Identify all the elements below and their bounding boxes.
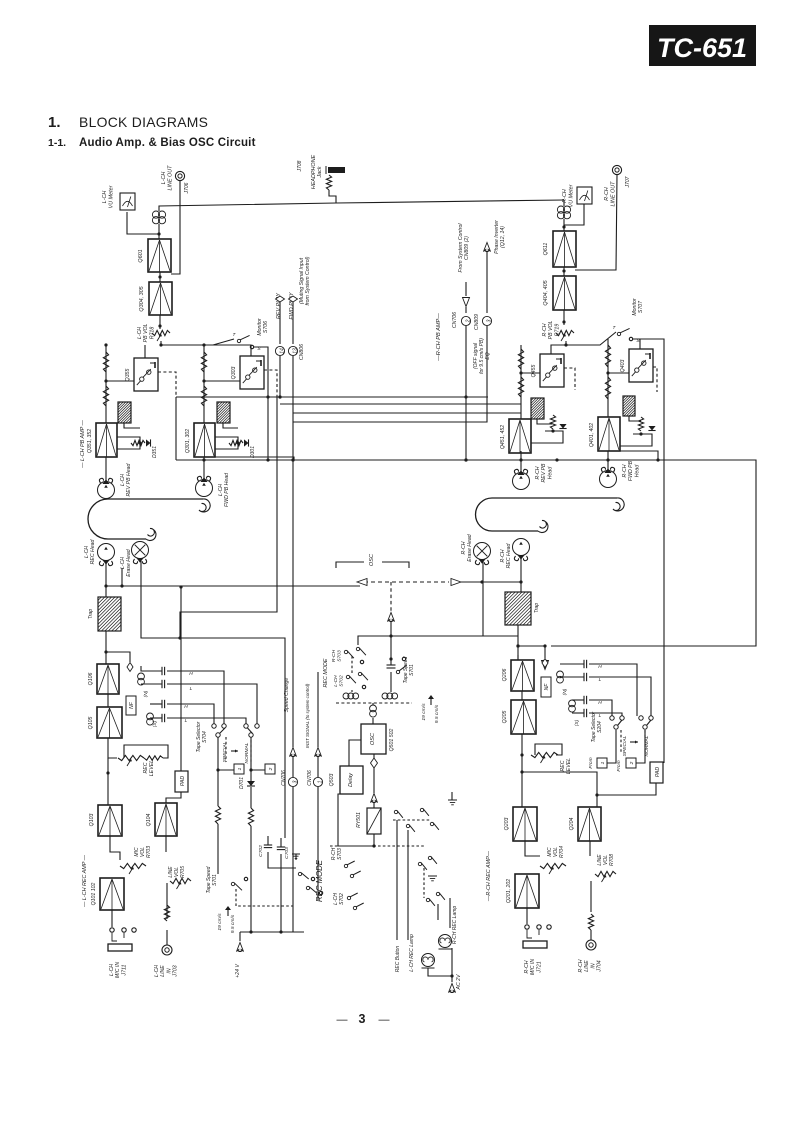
- switch chain mid: [418, 856, 445, 906]
- VU meter M-L: [120, 193, 135, 210]
- svg-text:RY501: RY501: [356, 812, 362, 828]
- From 2 box: [616, 758, 636, 772]
- wire osc vert lower: [389, 622, 392, 665]
- svg-text:Q106: Q106: [88, 673, 94, 686]
- resistor R-M1: [201, 352, 206, 372]
- wire S706 to right: [254, 347, 270, 462]
- label Tape Speed S701 upper: [206, 866, 218, 893]
- wire NF R1: [537, 419, 552, 424]
- svg-text:D301: D301: [250, 446, 256, 458]
- svg-text:Speed Change: Speed Change: [284, 678, 290, 713]
- svg-text:14: 14: [279, 348, 285, 354]
- connector circle 13: [288, 346, 298, 355]
- svg-text:L-CH: L-CH: [120, 557, 126, 569]
- L-CH REC head: [98, 544, 115, 566]
- wire REV line lower: [278, 356, 281, 399]
- wire 24v drop: [239, 932, 241, 941]
- transformer osc top: [370, 705, 377, 717]
- wire Q351 to REV head: [105, 457, 107, 481]
- svg-text:R-CH: R-CH: [535, 466, 541, 479]
- gnd mid: [428, 876, 437, 881]
- tape speed switch S701 L: [231, 877, 247, 890]
- line in jack R: [586, 940, 596, 950]
- svg-text:Q205: Q205: [502, 711, 508, 724]
- wire J706 down to Q601 out: [171, 181, 180, 274]
- caps H/L group2: [162, 700, 188, 724]
- svg-text:— L-CH PB AMP —: — L-CH PB AMP —: [80, 419, 86, 468]
- diamond FWD PLAY: [289, 296, 298, 302]
- coils lower1: [343, 690, 359, 699]
- label HEADPHONE Jack: [311, 155, 323, 190]
- label Trap R: [534, 603, 540, 613]
- label REC LEVEL R: [560, 758, 572, 774]
- svg-text:(N): (N): [143, 690, 149, 697]
- wire D351 net: [117, 437, 142, 449]
- svg-text:MIC IN: MIC IN: [115, 962, 121, 978]
- label L-CH REV PB Head: [120, 462, 132, 496]
- wire caps to sel R3: [589, 700, 612, 716]
- rec mode switch group L: [298, 872, 322, 894]
- resistor sel L2: [248, 808, 253, 826]
- svg-text:REC MODE: REC MODE: [323, 658, 329, 687]
- rec mode switches upper: [344, 647, 368, 688]
- svg-text:J706: J706: [184, 182, 190, 194]
- dashed osc vertical: [390, 582, 392, 611]
- wire branch 122: [121, 568, 123, 586]
- svg-text:REC Head: REC Head: [90, 538, 96, 564]
- svg-text:Q206: Q206: [502, 669, 508, 682]
- NF label box L: [126, 696, 136, 715]
- svg-text:9.5 cm/s: 9.5 cm/s: [230, 914, 236, 933]
- svg-text:S701: S701: [212, 874, 218, 886]
- transistor block Q301 302: [194, 423, 215, 457]
- svg-text:13: 13: [292, 348, 298, 354]
- wire R719 to monitor: [564, 332, 616, 347]
- coil S L: [147, 713, 158, 727]
- svg-text:R-CH: R-CH: [524, 960, 530, 973]
- mic jack R: [523, 925, 551, 948]
- svg-text:3: 3: [359, 1012, 366, 1026]
- NF label box R: [541, 677, 551, 697]
- dashed selector link L: [226, 737, 251, 762]
- svg-text:REV PB: REV PB: [541, 463, 547, 483]
- transistor block Q351 352: [96, 423, 117, 457]
- svg-text:H: H: [184, 704, 188, 710]
- dashed relay contacts: [393, 819, 430, 821]
- svg-text:L-CH: L-CH: [137, 327, 143, 339]
- svg-text:L-CH: L-CH: [154, 965, 160, 977]
- resistor D351 net: [131, 440, 145, 445]
- svg-text:SPECIAL: SPECIAL: [622, 735, 628, 756]
- svg-text:L-CH: L-CH: [218, 484, 224, 496]
- wire bus drop left: [175, 397, 177, 460]
- svg-text:Q401, 402: Q401, 402: [589, 423, 595, 447]
- svg-text:PB VOL: PB VOL: [143, 324, 149, 343]
- label SPECIAL L: [222, 741, 228, 762]
- svg-text:INST SIGNAL (to system contro: INST SIGNAL (to system control): [305, 683, 310, 748]
- wire Q403 top: [639, 339, 641, 349]
- svg-text:CN706: CN706: [281, 770, 287, 786]
- svg-text:MIC IN: MIC IN: [530, 959, 536, 975]
- From 1 box: [588, 757, 607, 768]
- open arrow up osc: [388, 613, 395, 622]
- wire caps to selector4: [167, 718, 246, 724]
- svg-text:From System Control: From System Control: [458, 223, 464, 273]
- wire bias bus y397: [176, 395, 488, 398]
- svg-text:Erase Head: Erase Head: [467, 533, 473, 562]
- label Q301 302: [185, 429, 191, 453]
- wire inst: [317, 672, 319, 777]
- tape speed switch c: [387, 657, 407, 692]
- svg-text:H: H: [598, 664, 602, 670]
- gnd near caps: [292, 854, 300, 860]
- svg-text:R-CH: R-CH: [542, 323, 548, 336]
- wire caps to sel R4: [589, 713, 622, 716]
- svg-text:S204: S204: [597, 721, 603, 733]
- transformer T601: [152, 211, 165, 224]
- svg-text:J707: J707: [625, 176, 631, 188]
- svg-text:IN: IN: [166, 968, 172, 973]
- connector circle 1 c: [313, 777, 323, 786]
- label SPECIAL R: [622, 735, 628, 756]
- speed arrow L: [225, 906, 231, 916]
- svg-text:VU Meter: VU Meter: [569, 184, 575, 207]
- svg-text:VU Meter: VU Meter: [109, 185, 115, 208]
- wire NF R2: [629, 416, 641, 421]
- open arrow up 24v: [237, 943, 244, 952]
- label Trap L: [88, 609, 94, 619]
- label D301: [250, 446, 256, 458]
- svg-text:R-CH: R-CH: [331, 649, 337, 662]
- svg-text:Q304, 305: Q304, 305: [139, 285, 145, 311]
- caps H/L group1 R: [584, 660, 602, 683]
- svg-text:Q303: Q303: [231, 367, 237, 380]
- svg-text:Q301, 302: Q301, 302: [185, 429, 191, 453]
- NF network L1: [118, 402, 131, 423]
- transistor block Q106: [97, 664, 119, 694]
- wire caps leads L: [141, 666, 162, 718]
- label 9.5 cm/s L: [230, 914, 236, 933]
- heading 1-1. Audio Amp. & Bias OSC Circuit: [48, 137, 256, 149]
- pot R718: [152, 330, 170, 341]
- svg-text:3: 3: [292, 780, 298, 783]
- pot R719: [556, 330, 574, 341]
- svg-text:S706: S706: [263, 321, 269, 333]
- wire Q101 down: [111, 910, 113, 927]
- label R-CH S703 c: [331, 847, 343, 860]
- svg-text:BLOCK DIAGRAMS: BLOCK DIAGRAMS: [79, 114, 208, 130]
- wire FWD line lower: [291, 356, 294, 585]
- label R-CH PB VOL R719: [542, 321, 560, 340]
- tape loop left: [88, 499, 210, 541]
- lamp L-CH: [422, 954, 435, 969]
- svg-text:From: From: [616, 760, 622, 771]
- open arrow speed change: [290, 748, 297, 757]
- label R-CH VU Meter: [562, 184, 575, 207]
- svg-text:CN706: CN706: [452, 312, 458, 328]
- svg-text:2: 2: [465, 319, 471, 323]
- svg-text:Trap: Trap: [88, 609, 94, 619]
- svg-text:Monitor: Monitor: [632, 298, 638, 316]
- transistor block Q103: [98, 805, 122, 836]
- svg-text:1.: 1.: [48, 114, 61, 131]
- svg-text:AC 2V: AC 2V: [456, 974, 462, 991]
- wire Q303 top: [204, 345, 251, 356]
- svg-text:H: H: [598, 700, 602, 706]
- open arrow up phase: [484, 243, 491, 252]
- label Q455: [531, 365, 537, 378]
- svg-text:Head: Head: [547, 466, 553, 480]
- svg-text:Q101 102: Q101 102: [91, 882, 97, 905]
- svg-text:PB VOL: PB VOL: [548, 321, 554, 340]
- label Muting Signal Input from System Control: [299, 256, 311, 305]
- NF network R1: [531, 398, 544, 419]
- box 1 L: [234, 764, 244, 774]
- label L-CH VU Meter: [102, 185, 115, 208]
- wire osc transformer: [372, 703, 374, 724]
- label L-CH LINE IN J703: [154, 965, 179, 978]
- label CN706 c3: [281, 770, 287, 786]
- wire S707 to PAD rail: [633, 339, 664, 763]
- label Q105: [88, 717, 94, 730]
- wire rec level L: [106, 738, 117, 805]
- box 2 L: [265, 764, 275, 774]
- label Q355: [125, 369, 131, 382]
- svg-text:H: H: [189, 671, 193, 677]
- wire Q106-Q105: [107, 694, 109, 707]
- svg-text:CN809 (2): CN809 (2): [464, 236, 470, 260]
- wire Q601-Q304: [159, 272, 161, 282]
- diode D701: [247, 781, 255, 786]
- pot R708: [595, 871, 616, 882]
- dashed Q455 out: [564, 368, 575, 390]
- svg-text:LINE: LINE: [160, 965, 166, 977]
- svg-text:PAD: PAD: [180, 776, 186, 787]
- svg-text:Delay: Delay: [348, 773, 354, 787]
- wire NF L2: [223, 423, 238, 428]
- svg-text:—R-CH REC AMP—: —R-CH REC AMP—: [486, 850, 492, 902]
- svg-text:D351: D351: [152, 446, 158, 458]
- wire OSC left: [349, 740, 361, 766]
- resistor R-R1: [518, 349, 523, 369]
- label CN706 c1: [307, 770, 313, 786]
- OSC box: [361, 724, 386, 754]
- wire relay bottom: [338, 794, 376, 848]
- page number 3: [337, 1012, 390, 1026]
- label Q601: [138, 249, 144, 262]
- svg-text:REC MODE: REC MODE: [315, 859, 324, 902]
- svg-text:J721: J721: [536, 961, 542, 973]
- svg-text:19 cm/s: 19 cm/s: [421, 703, 427, 721]
- wire lamps common: [428, 948, 454, 982]
- svg-text:Q611: Q611: [543, 243, 549, 256]
- svg-text:R704: R704: [559, 846, 565, 858]
- open arrow osc: [371, 794, 378, 803]
- wire caps leads R: [560, 664, 584, 713]
- svg-text:NORMAL: NORMAL: [244, 742, 250, 763]
- wire NF L1: [124, 423, 140, 428]
- wire Q203 down: [525, 841, 540, 856]
- wire Q206-Q205: [521, 691, 523, 700]
- label OFF signal: [473, 338, 491, 374]
- label REV PLAY: [276, 293, 282, 319]
- pot R705 L: [170, 878, 191, 889]
- svg-text:Head: Head: [634, 464, 640, 478]
- wire Q401 to FWD head: [606, 451, 609, 470]
- wire arrow to circle: [465, 307, 467, 313]
- svg-text:Monitor: Monitor: [257, 318, 263, 336]
- label L-CH S702 c: [333, 893, 345, 905]
- dashed chain mid: [330, 846, 424, 898]
- wire R bias vertical1: [519, 345, 522, 419]
- svg-text:L-CH REC Lamp: L-CH REC Lamp: [409, 934, 415, 972]
- wire Q206 top: [517, 655, 519, 660]
- label Q303: [231, 367, 237, 380]
- resistor line in L: [164, 905, 169, 921]
- svg-text:9.5 cm/s: 9.5 cm/s: [434, 704, 440, 723]
- pot R703 L: [120, 863, 146, 874]
- L-CH REV PB head: [98, 478, 115, 498]
- transistor box Q403: [608, 349, 653, 382]
- headphone resistor: [326, 175, 331, 190]
- diode D451: [559, 424, 566, 429]
- label Q501 502: [389, 728, 395, 751]
- label R-CH PB AMP: [436, 313, 442, 362]
- svg-text:FWD PB Head: FWD PB Head: [224, 472, 230, 507]
- svg-text:R-CH: R-CH: [622, 464, 628, 477]
- tape loop right: [476, 498, 625, 533]
- label L-CH PB VOL R718: [137, 324, 155, 343]
- svg-text:LEVEL: LEVEL: [149, 760, 155, 776]
- transistor block Q205: [511, 700, 536, 734]
- svg-text:NF: NF: [544, 683, 550, 691]
- label REC Button: [395, 946, 401, 973]
- transistor block Q611: [553, 231, 576, 267]
- wire osc out2: [373, 768, 375, 793]
- svg-text:1: 1: [317, 780, 323, 783]
- wire +24V rail: [240, 931, 304, 933]
- connector circle 14: [275, 346, 285, 355]
- resistor line in R: [588, 914, 593, 930]
- label INST SIGNAL: [305, 683, 310, 748]
- wire long line y586: [106, 584, 360, 587]
- label NORMAL L: [244, 742, 250, 763]
- label Tape Selector S204: [591, 711, 603, 742]
- label T contact R: [613, 325, 617, 331]
- resistor R-R4: [605, 377, 610, 399]
- VU meter M-R: [577, 187, 592, 204]
- svg-text:Q351, 352: Q351, 352: [87, 429, 93, 453]
- svg-text:L: L: [599, 677, 602, 683]
- transistor block Q105: [97, 707, 122, 738]
- label FWD PLAY: [289, 292, 295, 320]
- svg-text:R-CH REC Lamp: R-CH REC Lamp: [452, 906, 458, 945]
- Delay box: [340, 766, 363, 794]
- junction below coil: [158, 275, 161, 278]
- label L-CH REC AMP: [82, 854, 88, 908]
- svg-text:1-1.: 1-1.: [48, 137, 66, 149]
- wire D401 net: [620, 432, 652, 446]
- label MIC VOL R703: [134, 846, 152, 858]
- svg-text:L: L: [599, 713, 602, 719]
- svg-text:from System Control): from System Control): [305, 256, 311, 305]
- label R-CH MIC IN J721: [524, 959, 542, 975]
- label Q351 352: [87, 429, 93, 453]
- transistor block Q404 405: [553, 276, 576, 310]
- wire osc to relay: [373, 803, 375, 808]
- wire VU meter to coil: [127, 212, 159, 234]
- label Q204: [569, 818, 575, 831]
- wire speed change: [292, 585, 294, 777]
- diode D351: [146, 439, 151, 446]
- svg-text:Q403: Q403: [620, 360, 626, 373]
- wire box feeds: [216, 737, 265, 772]
- wire caps to selector2: [167, 684, 257, 724]
- wire coil top hook: [159, 203, 336, 211]
- svg-text:2: 2: [629, 761, 635, 765]
- svg-text:(S): (S): [152, 720, 158, 727]
- wire Q201 down: [526, 908, 528, 924]
- relay contact sw2: [420, 808, 439, 830]
- svg-text:FWD PB: FWD PB: [628, 460, 634, 481]
- open arrow down R: [542, 661, 549, 670]
- label From System Control CN809-2: [458, 223, 470, 273]
- diamond at Q106: [106, 652, 133, 672]
- label Speed Change: [284, 678, 290, 713]
- transformer T611: [557, 206, 570, 219]
- diamond arrow left: [357, 579, 367, 586]
- R-CH FWD PB head: [600, 467, 617, 487]
- dashed bias line: [364, 581, 449, 583]
- svg-text:R-CH: R-CH: [604, 187, 610, 201]
- svg-text:R703: R703: [146, 846, 152, 858]
- svg-text:1: 1: [600, 761, 606, 764]
- wire phase inverter: [486, 252, 488, 313]
- R-CH erase head: [474, 543, 491, 565]
- diamond arrow right: [451, 579, 461, 586]
- wire REV line: [279, 302, 281, 344]
- diamond REV PLAY: [276, 296, 285, 302]
- wire line in R: [590, 881, 592, 912]
- wire jack stub R: [590, 930, 592, 940]
- svg-text:Q404, 405: Q404, 405: [543, 279, 549, 305]
- label R-CH Erase Head: [461, 533, 473, 562]
- wire Q204 down: [589, 841, 591, 856]
- transistor block Q401 402: [598, 417, 620, 451]
- label R-CH LINE OUT: [604, 181, 617, 207]
- svg-text:2: 2: [268, 767, 274, 771]
- rec mode switches c: [344, 861, 363, 910]
- wire relay net vertical1: [396, 820, 398, 940]
- svg-text:L-CH: L-CH: [120, 474, 126, 486]
- svg-text:R708: R708: [609, 854, 615, 866]
- svg-text:1: 1: [237, 767, 243, 770]
- wire CN706 down to bus: [464, 326, 467, 462]
- NF network R2: [623, 396, 635, 416]
- wire rec level branch: [124, 745, 168, 758]
- label Phase Inverter Q12 14: [494, 220, 506, 254]
- wire long bus y460: [176, 458, 756, 646]
- label LINE VOL R708: [597, 854, 615, 866]
- svg-text:L: L: [190, 686, 193, 692]
- label MIC VOL R704: [547, 846, 565, 858]
- wire Q401 out: [620, 451, 658, 460]
- svg-text:L-CH: L-CH: [161, 172, 167, 185]
- label Q203: [504, 818, 510, 831]
- label REC LEVEL L: [143, 760, 155, 776]
- REC LEVEL pot R: [531, 752, 558, 763]
- transistor block Q206: [511, 660, 534, 691]
